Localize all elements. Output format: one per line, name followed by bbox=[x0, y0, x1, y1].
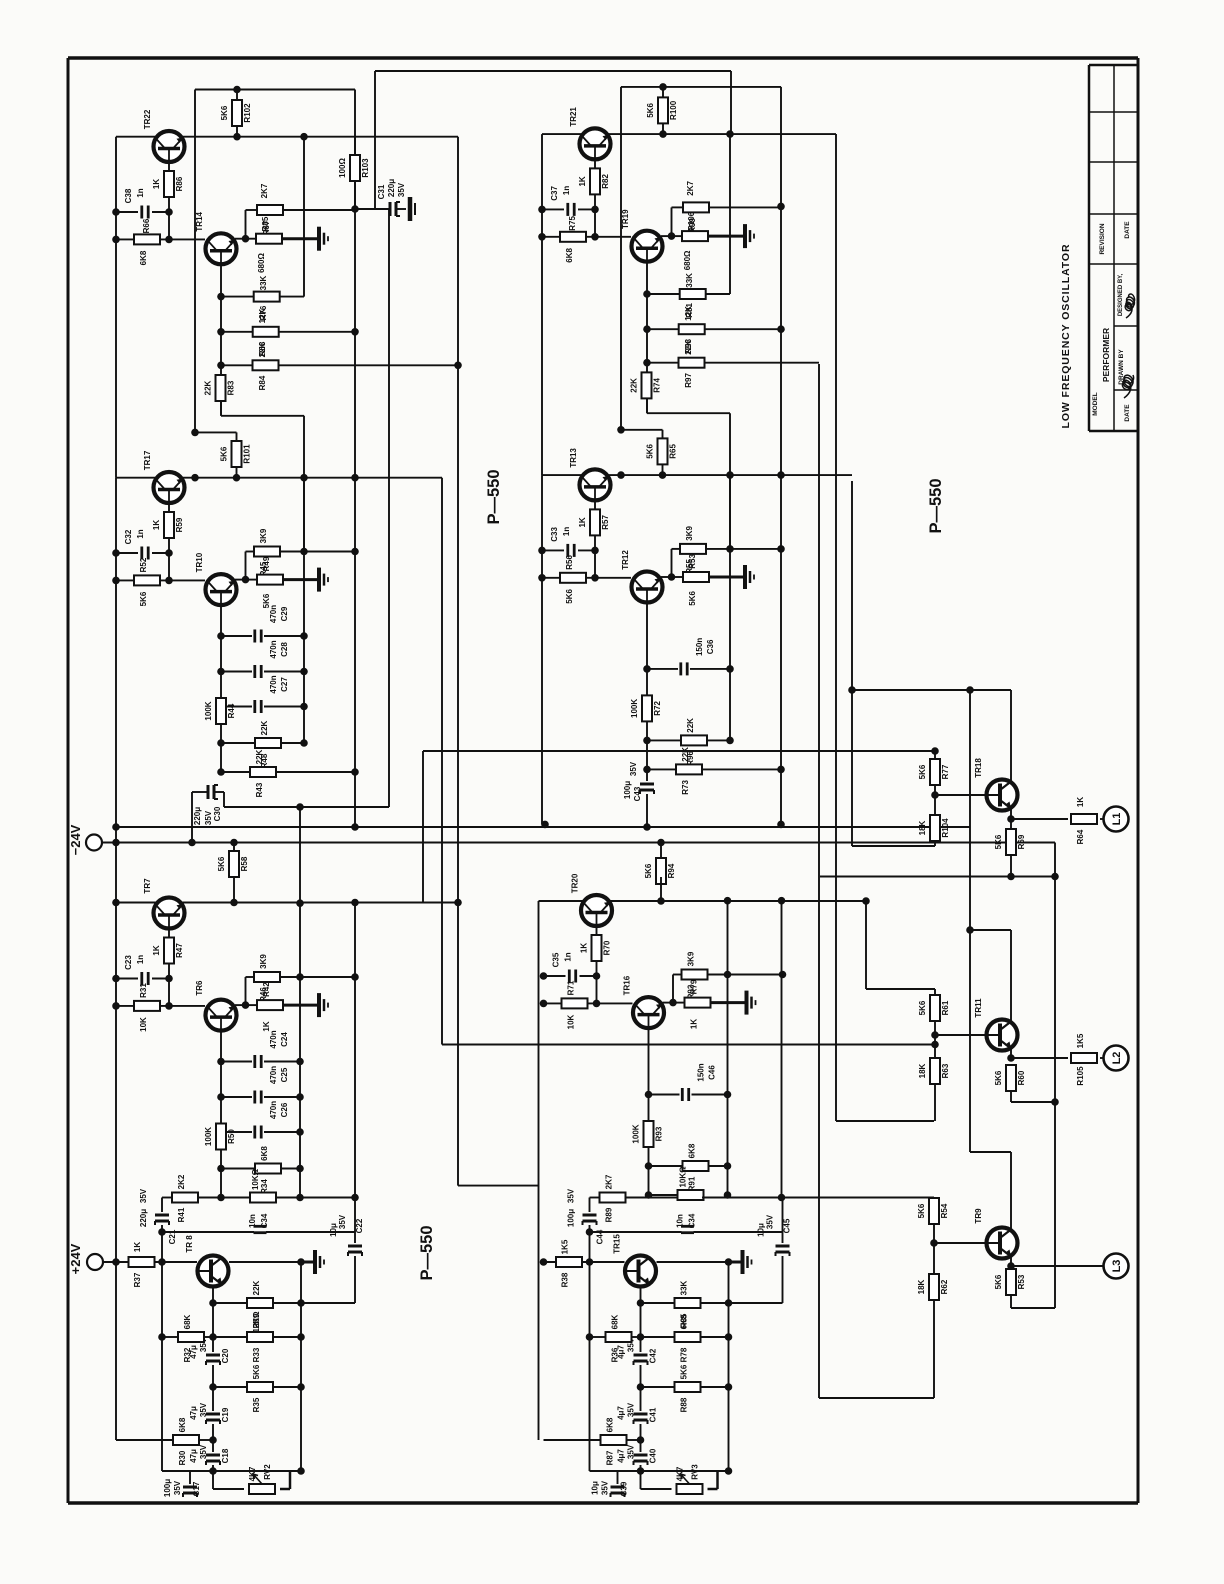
svg-text:4μ7: 4μ7 bbox=[617, 1449, 626, 1463]
svg-text:R62: R62 bbox=[940, 1279, 949, 1294]
svg-text:DATE: DATE bbox=[1124, 221, 1131, 239]
svg-text:22K: 22K bbox=[255, 749, 264, 764]
svg-text:10n: 10n bbox=[248, 1214, 257, 1228]
svg-text:5K6: 5K6 bbox=[217, 856, 226, 871]
svg-text:5K6: 5K6 bbox=[688, 591, 697, 606]
svg-text:C35: C35 bbox=[552, 952, 561, 967]
svg-text:47μ: 47μ bbox=[189, 1406, 198, 1420]
svg-text:12K: 12K bbox=[258, 308, 267, 323]
svg-text:5K6: 5K6 bbox=[918, 764, 927, 779]
svg-text:220μ: 220μ bbox=[387, 179, 396, 197]
svg-text:10μ: 10μ bbox=[591, 1481, 600, 1495]
svg-text:R102: R102 bbox=[243, 103, 252, 123]
svg-text:4K7: 4K7 bbox=[248, 1466, 257, 1481]
svg-text:R49: R49 bbox=[262, 556, 271, 571]
svg-text:PERFORMER: PERFORMER bbox=[1101, 328, 1111, 382]
svg-text:C22: C22 bbox=[355, 1218, 364, 1233]
svg-text:5K6: 5K6 bbox=[680, 1364, 689, 1379]
svg-text:R83: R83 bbox=[227, 380, 236, 395]
svg-text:C19: C19 bbox=[221, 1407, 230, 1422]
svg-text:35V: 35V bbox=[199, 1402, 208, 1417]
svg-text:R89: R89 bbox=[605, 1207, 614, 1222]
svg-text:R56: R56 bbox=[565, 555, 574, 570]
svg-text:TR9: TR9 bbox=[974, 1208, 983, 1224]
svg-text:R66: R66 bbox=[142, 218, 151, 233]
svg-text:6K8: 6K8 bbox=[139, 250, 148, 265]
svg-text:C36: C36 bbox=[706, 639, 715, 654]
svg-text:L2: L2 bbox=[1111, 1052, 1123, 1065]
svg-text:5K6: 5K6 bbox=[994, 1070, 1003, 1085]
svg-text:100μ: 100μ bbox=[163, 1479, 172, 1497]
svg-text:R53: R53 bbox=[1017, 1274, 1026, 1289]
svg-text:TR14: TR14 bbox=[195, 211, 204, 231]
svg-text:35V: 35V bbox=[627, 1444, 636, 1459]
svg-text:3K9: 3K9 bbox=[259, 528, 268, 543]
svg-text:1K: 1K bbox=[690, 1019, 699, 1029]
svg-text:220μ: 220μ bbox=[139, 1209, 148, 1227]
svg-text:1n: 1n bbox=[562, 527, 571, 536]
svg-text:1K: 1K bbox=[580, 943, 589, 953]
svg-text:L3: L3 bbox=[1111, 1260, 1123, 1273]
svg-text:6K8: 6K8 bbox=[680, 1314, 689, 1329]
svg-text:C43: C43 bbox=[633, 786, 642, 801]
svg-text:R74: R74 bbox=[653, 378, 662, 393]
svg-text:C17: C17 bbox=[192, 1481, 201, 1496]
svg-text:R106: R106 bbox=[687, 211, 696, 231]
svg-text:100μ: 100μ bbox=[623, 781, 632, 799]
svg-text:R94: R94 bbox=[667, 863, 676, 878]
svg-text:R104: R104 bbox=[941, 818, 950, 838]
svg-text:18K: 18K bbox=[918, 1063, 927, 1078]
svg-text:C31: C31 bbox=[377, 184, 386, 199]
svg-text:R69: R69 bbox=[1017, 834, 1026, 849]
svg-text:R36: R36 bbox=[611, 1347, 620, 1362]
svg-text:1n: 1n bbox=[136, 955, 145, 964]
svg-text:C42: C42 bbox=[649, 1348, 658, 1363]
svg-text:R72: R72 bbox=[653, 701, 662, 716]
svg-text:470n: 470n bbox=[269, 605, 278, 623]
svg-text:R59: R59 bbox=[175, 517, 184, 532]
svg-text:5K6: 5K6 bbox=[994, 834, 1003, 849]
svg-text:R43: R43 bbox=[255, 782, 264, 797]
svg-text:1K: 1K bbox=[152, 945, 161, 955]
svg-text:R57: R57 bbox=[601, 515, 610, 530]
svg-text:R50: R50 bbox=[227, 1129, 236, 1144]
svg-text:TR10: TR10 bbox=[195, 552, 204, 572]
svg-text:3K9: 3K9 bbox=[259, 954, 268, 969]
svg-text:R47: R47 bbox=[175, 943, 184, 958]
svg-text:10KΩ: 10KΩ bbox=[251, 1168, 260, 1190]
svg-text:10μ: 10μ bbox=[329, 1223, 338, 1237]
svg-text:TR7: TR7 bbox=[143, 878, 152, 894]
svg-text:150n: 150n bbox=[697, 1063, 706, 1081]
svg-text:R79: R79 bbox=[690, 979, 699, 994]
svg-text:1K: 1K bbox=[152, 520, 161, 530]
svg-text:6K8: 6K8 bbox=[565, 248, 574, 263]
svg-text:R97: R97 bbox=[684, 373, 693, 388]
svg-text:5K6: 5K6 bbox=[644, 863, 653, 878]
svg-text:TR18: TR18 bbox=[974, 758, 983, 778]
svg-text:DATE: DATE bbox=[1124, 404, 1131, 422]
svg-text:C18: C18 bbox=[221, 1448, 230, 1463]
svg-text:R64: R64 bbox=[1076, 829, 1085, 844]
svg-text:470n: 470n bbox=[269, 1101, 278, 1119]
svg-text:C27: C27 bbox=[280, 677, 289, 692]
svg-text:P—550: P—550 bbox=[418, 1225, 436, 1280]
svg-text:100K: 100K bbox=[632, 1124, 641, 1143]
svg-text:R42: R42 bbox=[262, 982, 271, 997]
svg-text:22K: 22K bbox=[681, 747, 690, 762]
svg-text:5K6: 5K6 bbox=[139, 591, 148, 606]
svg-text:C25: C25 bbox=[280, 1067, 289, 1082]
svg-text:35V: 35V bbox=[139, 1188, 148, 1203]
svg-text:35V: 35V bbox=[173, 1480, 182, 1495]
svg-text:2K7: 2K7 bbox=[686, 181, 695, 196]
svg-text:68K: 68K bbox=[611, 1314, 620, 1329]
svg-text:TR12: TR12 bbox=[621, 550, 630, 570]
svg-text:TR19: TR19 bbox=[621, 209, 630, 229]
svg-text:R44: R44 bbox=[227, 703, 236, 718]
svg-text:R70: R70 bbox=[603, 940, 612, 955]
svg-text:R31: R31 bbox=[139, 983, 148, 998]
svg-text:12K: 12K bbox=[684, 306, 693, 321]
svg-text:10K: 10K bbox=[139, 1017, 148, 1032]
svg-text:TR17: TR17 bbox=[143, 450, 152, 470]
svg-text:R33: R33 bbox=[252, 1347, 261, 1362]
svg-text:5K6: 5K6 bbox=[917, 1203, 926, 1218]
svg-text:TR20: TR20 bbox=[571, 873, 580, 893]
svg-text:C33: C33 bbox=[550, 527, 559, 542]
svg-text:47μ: 47μ bbox=[189, 1449, 198, 1463]
svg-text:1K: 1K bbox=[578, 176, 587, 186]
svg-text:LOW FREQUENCY OSCILLATOR: LOW FREQUENCY OSCILLATOR bbox=[1060, 244, 1072, 429]
svg-text:100μ: 100μ bbox=[567, 1209, 576, 1227]
svg-text:R105: R105 bbox=[1076, 1066, 1085, 1086]
svg-text:100K: 100K bbox=[204, 701, 213, 720]
svg-text:DESIGNED BY,: DESIGNED BY, bbox=[1118, 273, 1124, 316]
svg-text:+24V: +24V bbox=[68, 1243, 83, 1274]
svg-text:C37: C37 bbox=[550, 186, 559, 201]
svg-text:R52: R52 bbox=[139, 557, 148, 572]
svg-text:12KΩ: 12KΩ bbox=[252, 1311, 261, 1333]
svg-text:150n: 150n bbox=[695, 638, 704, 656]
svg-text:R54: R54 bbox=[940, 1203, 949, 1218]
svg-text:TR21: TR21 bbox=[569, 107, 578, 127]
svg-text:R84: R84 bbox=[258, 375, 267, 390]
svg-text:10μ: 10μ bbox=[757, 1223, 766, 1237]
svg-text:5K6: 5K6 bbox=[252, 1364, 261, 1379]
svg-text:C24: C24 bbox=[280, 1032, 289, 1047]
svg-text:35V: 35V bbox=[204, 810, 213, 825]
svg-text:R87: R87 bbox=[606, 1450, 615, 1465]
svg-text:R82: R82 bbox=[601, 174, 610, 189]
svg-text:C39: C39 bbox=[620, 1481, 629, 1496]
svg-text:5K6: 5K6 bbox=[646, 444, 655, 459]
svg-text:6K8: 6K8 bbox=[260, 1146, 269, 1161]
svg-text:33K: 33K bbox=[685, 273, 694, 288]
svg-text:1K: 1K bbox=[578, 517, 587, 527]
svg-text:68K: 68K bbox=[183, 1314, 192, 1329]
svg-text:470n: 470n bbox=[269, 1066, 278, 1084]
svg-text:35V: 35V bbox=[766, 1214, 775, 1229]
svg-text:22K: 22K bbox=[258, 342, 267, 357]
svg-text:C29: C29 bbox=[280, 606, 289, 621]
svg-text:TR11: TR11 bbox=[974, 998, 983, 1018]
svg-text:1K5: 1K5 bbox=[561, 1239, 570, 1254]
svg-text:33K: 33K bbox=[259, 275, 268, 290]
svg-text:TR15: TR15 bbox=[613, 1234, 622, 1254]
svg-text:R63: R63 bbox=[941, 1063, 950, 1078]
svg-text:1K: 1K bbox=[262, 1021, 271, 1031]
svg-text:35V: 35V bbox=[627, 1402, 636, 1417]
svg-text:C41: C41 bbox=[649, 1407, 658, 1422]
svg-text:P—550: P—550 bbox=[485, 469, 503, 524]
svg-text:R71: R71 bbox=[567, 980, 576, 995]
svg-text:33K: 33K bbox=[680, 1280, 689, 1295]
svg-text:C20: C20 bbox=[221, 1348, 230, 1363]
svg-text:P—550: P—550 bbox=[927, 478, 945, 533]
svg-text:RV2: RV2 bbox=[263, 1464, 272, 1480]
svg-text:22K: 22K bbox=[686, 718, 695, 733]
svg-text:18K: 18K bbox=[918, 820, 927, 835]
svg-text:10K: 10K bbox=[567, 1014, 576, 1029]
svg-text:22K: 22K bbox=[252, 1280, 261, 1295]
svg-text:35V: 35V bbox=[629, 761, 638, 776]
svg-text:5K6: 5K6 bbox=[994, 1274, 1003, 1289]
svg-text:2K2: 2K2 bbox=[177, 1174, 186, 1189]
svg-text:R101: R101 bbox=[243, 444, 252, 464]
svg-text:C28: C28 bbox=[280, 642, 289, 657]
svg-text:6K8: 6K8 bbox=[688, 1143, 697, 1158]
svg-text:35V: 35V bbox=[567, 1188, 576, 1203]
svg-text:C23: C23 bbox=[124, 955, 133, 970]
svg-text:35V: 35V bbox=[338, 1214, 347, 1229]
svg-text:5K6: 5K6 bbox=[565, 589, 574, 604]
svg-text:C38: C38 bbox=[124, 188, 133, 203]
svg-text:4μ7: 4μ7 bbox=[617, 1406, 626, 1420]
svg-text:35V: 35V bbox=[601, 1480, 610, 1495]
svg-text:C34: C34 bbox=[260, 1213, 269, 1228]
svg-text:35V: 35V bbox=[397, 182, 406, 197]
svg-text:10KΩ: 10KΩ bbox=[679, 1166, 688, 1188]
svg-text:18K: 18K bbox=[917, 1279, 926, 1294]
svg-text:100K: 100K bbox=[204, 1127, 213, 1146]
svg-text:REVISION: REVISION bbox=[1099, 223, 1106, 254]
svg-text:R73: R73 bbox=[681, 780, 690, 795]
svg-text:100K: 100K bbox=[630, 699, 639, 718]
svg-text:R100: R100 bbox=[669, 100, 678, 120]
svg-text:R88: R88 bbox=[680, 1397, 689, 1412]
svg-text:TR16: TR16 bbox=[623, 975, 632, 995]
svg-text:1n: 1n bbox=[562, 186, 571, 195]
svg-text:680Ω: 680Ω bbox=[257, 253, 266, 273]
svg-text:R61: R61 bbox=[941, 1000, 950, 1015]
svg-text:C45: C45 bbox=[783, 1218, 792, 1233]
svg-text:1n: 1n bbox=[136, 188, 145, 197]
svg-text:TR 8: TR 8 bbox=[185, 1235, 194, 1253]
svg-text:1n: 1n bbox=[136, 529, 145, 538]
svg-text:5K6: 5K6 bbox=[646, 103, 655, 118]
svg-text:22K: 22K bbox=[260, 720, 269, 735]
svg-text:680Ω: 680Ω bbox=[683, 250, 692, 270]
svg-text:22K: 22K bbox=[204, 380, 213, 395]
svg-text:C46: C46 bbox=[708, 1065, 717, 1080]
svg-text:R77: R77 bbox=[941, 764, 950, 779]
svg-text:C40: C40 bbox=[649, 1448, 658, 1463]
svg-text:R30: R30 bbox=[178, 1450, 187, 1465]
svg-text:5K6: 5K6 bbox=[220, 105, 229, 120]
svg-text:10n: 10n bbox=[676, 1214, 685, 1228]
svg-text:1K: 1K bbox=[152, 179, 161, 189]
svg-text:R32: R32 bbox=[183, 1347, 192, 1362]
svg-text:R85: R85 bbox=[261, 216, 270, 231]
svg-text:R35: R35 bbox=[252, 1397, 261, 1412]
svg-text:MODEL: MODEL bbox=[1092, 392, 1099, 416]
svg-text:5K6: 5K6 bbox=[220, 446, 229, 461]
svg-text:470n: 470n bbox=[269, 675, 278, 693]
svg-text:220μ: 220μ bbox=[193, 807, 202, 825]
svg-text:3K9: 3K9 bbox=[685, 526, 694, 541]
svg-text:R75: R75 bbox=[568, 216, 577, 231]
svg-text:TR22: TR22 bbox=[143, 109, 152, 129]
svg-text:TR13: TR13 bbox=[569, 448, 578, 468]
svg-text:R78: R78 bbox=[680, 1347, 689, 1362]
svg-text:L1: L1 bbox=[1111, 813, 1123, 826]
svg-text:RV3: RV3 bbox=[691, 1464, 700, 1480]
svg-text:C26: C26 bbox=[280, 1102, 289, 1117]
svg-text:1K: 1K bbox=[1076, 797, 1085, 807]
svg-text:−24V: −24V bbox=[68, 824, 83, 855]
svg-text:6K8: 6K8 bbox=[178, 1417, 187, 1432]
svg-text:1K: 1K bbox=[133, 1242, 142, 1252]
svg-text:470n: 470n bbox=[269, 1030, 278, 1048]
svg-text:C32: C32 bbox=[124, 529, 133, 544]
svg-text:TR6: TR6 bbox=[195, 980, 204, 996]
svg-text:R65: R65 bbox=[669, 444, 678, 459]
svg-text:6K8: 6K8 bbox=[606, 1417, 615, 1432]
svg-text:R103: R103 bbox=[361, 158, 370, 178]
svg-text:35V: 35V bbox=[199, 1444, 208, 1459]
svg-text:R86: R86 bbox=[175, 176, 184, 191]
svg-text:2K7: 2K7 bbox=[605, 1174, 614, 1189]
svg-text:R93: R93 bbox=[655, 1126, 664, 1141]
svg-text:5K6: 5K6 bbox=[918, 1000, 927, 1015]
svg-text:1n: 1n bbox=[564, 952, 573, 961]
svg-text:R37: R37 bbox=[133, 1272, 142, 1287]
svg-text:R38: R38 bbox=[561, 1272, 570, 1287]
svg-text:4K7: 4K7 bbox=[676, 1466, 685, 1481]
svg-text:R60: R60 bbox=[1017, 1070, 1026, 1085]
svg-text:100Ω: 100Ω bbox=[338, 158, 347, 178]
svg-text:2K7: 2K7 bbox=[260, 183, 269, 198]
svg-text:R53: R53 bbox=[688, 554, 697, 569]
svg-text:22K: 22K bbox=[630, 378, 639, 393]
svg-text:R58: R58 bbox=[240, 856, 249, 871]
svg-text:22K: 22K bbox=[684, 340, 693, 355]
svg-text:C30: C30 bbox=[213, 806, 222, 821]
svg-text:C34: C34 bbox=[688, 1213, 697, 1228]
svg-text:R41: R41 bbox=[177, 1207, 186, 1222]
svg-text:3K9: 3K9 bbox=[687, 951, 696, 966]
svg-text:470n: 470n bbox=[269, 640, 278, 658]
svg-text:1K5: 1K5 bbox=[1076, 1033, 1085, 1048]
